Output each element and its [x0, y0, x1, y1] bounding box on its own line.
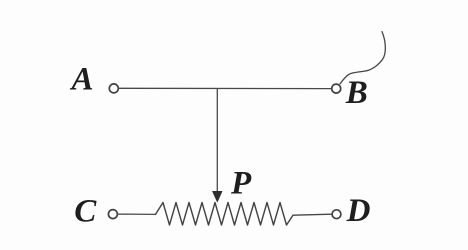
wire resistor to D — [293, 214, 332, 215]
terminal C — [108, 210, 117, 219]
wire C to resistor — [118, 213, 156, 215]
wire junction to wiper — [216, 89, 218, 193]
terminal B — [332, 84, 341, 93]
svg-text:A: A — [70, 62, 94, 98]
wire A to B — [119, 87, 332, 89]
svg-text:B: B — [345, 75, 368, 111]
wiper arrowhead — [213, 191, 223, 202]
svg-text:D: D — [346, 193, 371, 229]
resistor (potentiometer track) — [156, 203, 294, 226]
svg-text:P: P — [230, 166, 252, 202]
svg-text:C: C — [74, 194, 97, 230]
flexible lead wire at B — [340, 32, 385, 84]
terminal D — [332, 210, 341, 219]
terminal A — [109, 84, 118, 93]
